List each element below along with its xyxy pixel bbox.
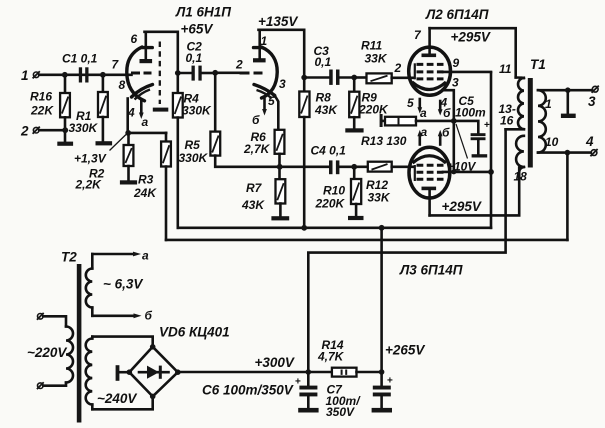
pentode U2 cathode	[412, 82, 446, 90]
resistor R16	[30, 77, 70, 142]
svg-text:+265V: +265V	[385, 343, 425, 358]
ground (C6)	[298, 408, 318, 413]
svg-text:330K: 330K	[182, 104, 212, 118]
svg-text:б: б	[252, 113, 260, 127]
svg-text:16: 16	[500, 114, 514, 128]
svg-text:~ 6,3V: ~ 6,3V	[103, 277, 143, 292]
T1 primary lower half	[514, 136, 528, 184]
svg-text:C4 0,1: C4 0,1	[311, 144, 347, 158]
bridge diode symbol	[139, 366, 169, 379]
svg-text:3: 3	[279, 77, 286, 91]
capacitor C1	[62, 52, 98, 83]
svg-text:б: б	[442, 126, 450, 140]
node G (C3/R8)	[301, 75, 307, 81]
resistor R6	[243, 130, 284, 179]
svg-text:220K: 220K	[315, 197, 346, 211]
svg-text:3: 3	[588, 94, 596, 109]
wire R11 to grid of L2	[392, 61, 414, 78]
svg-text:2,7K: 2,7K	[243, 142, 271, 156]
svg-text:R7: R7	[246, 181, 263, 195]
svg-text:б: б	[145, 309, 153, 323]
wire +65V rail	[145, 22, 214, 73]
heater arrows U2 pins 5/a 4/b	[407, 96, 451, 121]
svg-text:Л1 6Н1П: Л1 6Н1П	[175, 5, 231, 20]
tube U2 L2 6P14P label	[425, 7, 489, 22]
svg-text:+295V: +295V	[442, 199, 482, 214]
ground (R10)	[348, 216, 364, 220]
pin 7 label	[112, 58, 120, 72]
triode U1a envelope arc	[127, 47, 153, 101]
wire U3 screen/cathode to +265 line	[443, 171, 491, 174]
svg-text:R10: R10	[323, 184, 345, 198]
resistor R8	[299, 78, 338, 228]
wire secondary top	[538, 89, 592, 92]
pentode U3 anode	[422, 187, 437, 216]
node F (R6/R7/C4 line)	[277, 164, 283, 170]
pentode U2 anode (pin 7)	[414, 28, 436, 57]
svg-text:24K: 24K	[133, 186, 157, 200]
node A (R16 top)	[62, 72, 68, 78]
pentode U2 grids	[415, 63, 444, 79]
wire supply bus (+265V)	[178, 227, 491, 230]
svg-text:a: a	[142, 115, 149, 129]
svg-text:+: +	[295, 377, 301, 388]
ground (secondary)	[561, 114, 576, 118]
node C (R1 top)	[100, 72, 106, 78]
resistor R12	[354, 162, 414, 205]
wire input2	[39, 129, 65, 132]
svg-text:5: 5	[407, 96, 414, 110]
svg-text:a: a	[142, 249, 149, 263]
heater feed arrow a	[92, 249, 149, 263]
+10V pointer	[447, 124, 476, 174]
svg-text:T1: T1	[530, 57, 546, 72]
svg-text:220K: 220K	[358, 103, 389, 117]
svg-text:T2: T2	[61, 250, 77, 265]
svg-text:6: 6	[131, 32, 138, 46]
terminal 220V bottom	[37, 382, 44, 389]
resistor R1	[69, 77, 108, 141]
transformer T1 label	[530, 57, 546, 72]
wire cathode node	[125, 130, 166, 136]
pin 6 label	[131, 32, 138, 46]
T2 primary 220V winding	[27, 316, 73, 385]
T1 secondary winding	[538, 90, 559, 152]
capacitor C6	[202, 372, 317, 408]
triode U1a grid (dashed)	[131, 72, 152, 75]
wire screen pin 9 to +265 line	[443, 56, 491, 72]
bridge AC terminal bar	[116, 365, 130, 381]
svg-text:Л2 6П14П: Л2 6П14П	[425, 7, 489, 22]
svg-text:+1,3V: +1,3V	[74, 152, 107, 166]
svg-text:0,1: 0,1	[315, 55, 332, 69]
ground (R1)	[96, 141, 113, 145]
resistor R11	[354, 39, 392, 84]
wire +295V top rail	[430, 28, 516, 77]
svg-text:8: 8	[119, 78, 126, 92]
ground (C5)	[472, 154, 488, 157]
svg-text:4,7K: 4,7K	[317, 350, 345, 364]
svg-text:33K: 33K	[368, 191, 391, 205]
heater arrow pin5/b	[252, 99, 267, 127]
wire +265V vertical	[380, 228, 383, 372]
bridge nodes	[127, 344, 181, 399]
svg-text:5: 5	[268, 94, 275, 108]
svg-text:+135V: +135V	[258, 14, 298, 29]
svg-text:R3: R3	[138, 173, 154, 187]
svg-text:2: 2	[235, 58, 243, 72]
svg-text:3: 3	[452, 76, 459, 90]
triode U1b grid (dashed)	[240, 72, 263, 75]
svg-text:2: 2	[394, 61, 402, 75]
pentode U3 grids	[415, 165, 444, 181]
terminal 1	[21, 68, 40, 83]
wire screen supply line	[490, 73, 493, 228]
wire secondary bottom	[538, 151, 591, 154]
envelope divider (dashed) and internal shield bar	[153, 42, 169, 112]
svg-text:33K: 33K	[365, 52, 388, 66]
wire center tap to +300V	[308, 129, 505, 372]
wire feedback to bus	[566, 153, 569, 240]
svg-text:43K: 43K	[314, 103, 338, 117]
ground (R7)	[271, 216, 289, 220]
node I (C4/R10/R12)	[351, 164, 357, 170]
node J (cathodes/C5/R13)	[451, 118, 457, 124]
svg-text:330K: 330K	[69, 121, 99, 135]
node O (R8 line on bus)	[301, 225, 307, 231]
triode U1b cathode	[254, 77, 286, 130]
resistor R5	[179, 73, 330, 167]
svg-text:+295V: +295V	[451, 30, 491, 45]
node E (C2/R5/grid2)	[212, 70, 218, 76]
wire +295V bottom (U3 anode to T1 pin 18)	[430, 168, 520, 216]
svg-text:+: +	[387, 376, 393, 387]
node N (feedback tap)	[565, 150, 571, 156]
heater arrows U3 a/b	[417, 125, 450, 145]
svg-text:9: 9	[453, 56, 460, 70]
svg-text:R11: R11	[361, 39, 382, 53]
svg-text:a: a	[421, 125, 428, 139]
wire cathode pin 3 down	[443, 76, 459, 172]
node B (terminal2/R16)	[62, 127, 68, 133]
svg-text:2: 2	[20, 124, 29, 139]
T1 center tap 13-16	[499, 102, 524, 129]
T2 240V winding	[86, 337, 138, 410]
svg-text:4: 4	[127, 106, 135, 120]
pin 8 label	[119, 78, 126, 92]
wire +300V	[178, 355, 308, 372]
node R (+265V/C7)	[379, 343, 426, 375]
svg-text:330K: 330K	[179, 151, 209, 165]
wire feedback bus	[166, 239, 567, 242]
triode U1b envelope arc	[254, 47, 278, 98]
ground (R9)	[345, 128, 363, 132]
svg-text:~240V: ~240V	[97, 391, 137, 406]
svg-text:18: 18	[514, 170, 528, 184]
svg-text:VD6 КЦ401: VD6 КЦ401	[159, 325, 230, 340]
capacitor C7	[326, 372, 394, 419]
svg-text:4: 4	[585, 134, 594, 149]
svg-text:б: б	[443, 106, 451, 120]
ground (R16)	[57, 142, 73, 146]
resistor R3	[133, 133, 171, 200]
ground (C7)	[372, 408, 392, 413]
T1 core	[528, 78, 533, 168]
svg-text:R16: R16	[30, 90, 52, 104]
svg-text:100m: 100m	[455, 106, 486, 120]
diode bridge VD6	[92, 337, 178, 410]
tube U3 L3 6P14P label	[399, 263, 463, 278]
svg-text:2,2K: 2,2K	[75, 178, 103, 192]
svg-text:+300V: +300V	[255, 355, 295, 370]
node K	[451, 169, 456, 174]
resistor R14	[308, 338, 381, 377]
svg-text:+65V: +65V	[181, 22, 214, 37]
node M (secondary gnd tap)	[565, 87, 571, 113]
pentode U3 cathode	[413, 156, 447, 163]
T2 6.3V winding	[86, 254, 144, 316]
capacitor C4	[311, 144, 355, 175]
svg-text:10: 10	[545, 135, 559, 149]
terminal 2	[20, 124, 40, 139]
tube U1 L1 6N1P label	[175, 5, 231, 20]
capacitor C3	[304, 44, 354, 85]
ground (R2)	[120, 180, 137, 184]
diode bridge VD6 label	[159, 325, 230, 340]
resistor R2	[75, 133, 134, 192]
capacitor C2	[178, 40, 215, 81]
svg-text:a: a	[420, 106, 427, 120]
node L (screen line)	[488, 169, 494, 175]
svg-text:C6 100m/350V: C6 100m/350V	[202, 383, 294, 398]
T2 core	[77, 264, 82, 423]
resistor R7	[241, 179, 285, 216]
node Q (+300V/C6)	[306, 369, 312, 375]
svg-text:~220V: ~220V	[27, 345, 67, 360]
svg-text:22K: 22K	[30, 104, 54, 118]
wire input1 to C1	[39, 74, 131, 77]
svg-text:11: 11	[499, 62, 512, 76]
capacitor C5	[454, 94, 490, 154]
triode U1b anode plate	[253, 30, 266, 63]
triode U1a cathode	[128, 85, 153, 133]
wire to grid 2	[215, 58, 243, 73]
svg-text:R13 130: R13 130	[361, 134, 407, 148]
svg-text:R5: R5	[185, 138, 201, 152]
terminal 4	[585, 134, 598, 156]
svg-text:43K: 43K	[241, 198, 265, 212]
terminal 3	[588, 86, 599, 109]
svg-text:1: 1	[21, 68, 29, 83]
resistor R9	[349, 78, 389, 129]
heater feed arrow b	[92, 309, 152, 323]
transformer T2 label	[61, 250, 77, 265]
wire +135V rail	[258, 14, 304, 77]
node +1,3V pointer	[74, 135, 126, 166]
svg-text:+: +	[484, 120, 490, 131]
node D (plate/C2/R4)	[175, 70, 181, 76]
pin 1 label	[261, 34, 268, 48]
triode U1a anode plate	[140, 32, 153, 63]
resistor R10	[315, 167, 362, 216]
node P (+265V drop)	[379, 225, 385, 231]
resistor R4	[173, 73, 212, 228]
svg-text:C1 0,1: C1 0,1	[62, 52, 98, 66]
pentode U3 envelope	[409, 147, 450, 198]
svg-text:1: 1	[545, 97, 552, 111]
heater arrow pin4/a	[127, 101, 149, 130]
terminal 220V top	[37, 313, 44, 320]
node H (R9/R11)	[351, 75, 357, 81]
resistor R13	[361, 114, 454, 148]
svg-text:Л3 6П14П: Л3 6П14П	[399, 263, 463, 278]
svg-text:0,1: 0,1	[186, 51, 203, 65]
wire R3 to feedback bus	[165, 167, 168, 240]
T1 primary winding	[499, 62, 524, 129]
svg-text:350V: 350V	[326, 405, 355, 419]
pentode U2 envelope	[409, 47, 451, 95]
